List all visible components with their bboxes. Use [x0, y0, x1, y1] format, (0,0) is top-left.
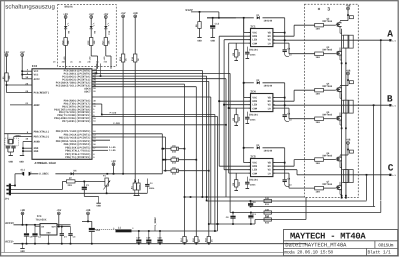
- wire HO gate A: [273, 35, 294, 37]
- junction sbec riser2: [217, 223, 219, 225]
- IC1 pin stubs: [249, 32, 251, 34]
- shunt resistor pair A: [344, 35, 348, 48]
- wire COM row IC5: [229, 172, 251, 174]
- junction C9: [232, 212, 234, 214]
- svg-text:100: 100: [316, 121, 321, 124]
- svg-text:VS: VS: [268, 169, 272, 172]
- wire LO gate C: [273, 172, 289, 174]
- wire XTAL1 to crystal: [7, 134, 9, 140]
- svg-text:LIN: LIN: [252, 169, 257, 172]
- wire HIN row IC5: [219, 165, 250, 167]
- wire Q7 source down: [339, 191, 341, 194]
- wire +5V VCC column: [21, 56, 23, 78]
- wire VCC row pin 6: [22, 74, 32, 76]
- svg-text:+5V: +5V: [56, 209, 61, 212]
- page frame inner left line: [3, 1, 5, 252]
- resistor R8 IC5: [235, 180, 238, 187]
- svg-text:10K: 10K: [93, 40, 96, 45]
- supply symbol +5V (VCC): [21, 54, 24, 57]
- wire drain to FET B: [340, 85, 348, 87]
- resistor R8 IC4: [235, 115, 238, 122]
- wire VCC row pin 18: [22, 78, 32, 80]
- wire +UB to rail: [22, 215, 24, 225]
- junction ACCU- gnd: [22, 243, 24, 245]
- svg-text:C20: C20: [158, 237, 163, 240]
- svg-text:0815Um: 0815Um: [378, 242, 393, 248]
- svg-text:+UB: +UB: [346, 69, 351, 72]
- svg-text:U12V: U12V: [186, 9, 193, 12]
- junction 12V rail C13: [212, 17, 214, 19]
- resistor R13: [264, 211, 272, 214]
- bus wire v 210.8: [210, 97, 212, 224]
- svg-text:10K: 10K: [67, 40, 70, 45]
- junction sbec riser: [217, 223, 219, 225]
- MCU top pin stubs: [95, 64, 97, 74]
- svg-text:LIN: LIN: [252, 104, 257, 107]
- diode D14 wire: [163, 170, 171, 172]
- svg-text:+5V: +5V: [63, 13, 68, 16]
- junction diode verticals: [161, 148, 163, 150]
- wire HO gate C: [273, 165, 294, 167]
- wire +5V to LED D8: [65, 18, 67, 25]
- svg-text:GND: GND: [46, 231, 51, 234]
- junction C16: [91, 243, 93, 245]
- load capacitor C6: [6, 145, 10, 147]
- bootstrap diode D3: [257, 146, 260, 149]
- gate resistor Q6: [315, 158, 324, 162]
- junction: [21, 70, 23, 72]
- svg-text:100n: 100n: [250, 119, 256, 122]
- svg-text:Datei:MAYTECH_MT40A: Datei:MAYTECH_MT40A: [285, 242, 347, 249]
- wire C11 bottom: [250, 218, 252, 224]
- wire R1 to reset row: [6, 81, 8, 92]
- wire C16 to rail: [91, 232, 93, 244]
- svg-text:10K: 10K: [238, 116, 241, 121]
- net label U_SBEC: [38, 171, 55, 176]
- svg-text:IC2: IC2: [32, 65, 38, 68]
- svg-text:R11: R11: [265, 203, 270, 206]
- svg-text:100n: 100n: [149, 187, 155, 190]
- title block row divider 1: [284, 240, 398, 242]
- capacitor C4: [145, 184, 149, 186]
- wire BEC to L1 (dotted): [95, 228, 116, 230]
- wire C13 stem: [212, 18, 214, 26]
- shunt resistor pair C: [344, 170, 348, 183]
- junction VB IC5: [284, 162, 286, 164]
- svg-text:COM: COM: [252, 42, 257, 45]
- wire COM row IC4: [229, 107, 251, 109]
- svg-text:IC4: IC4: [250, 90, 256, 93]
- junction drain B: [347, 79, 349, 81]
- junction P-LED: [101, 114, 103, 116]
- svg-text:VB: VB: [268, 162, 272, 165]
- wire VB drop IC4: [284, 83, 286, 115]
- svg-text:L1: L1: [118, 226, 122, 229]
- wires PB stubs with labels: [92, 146, 108, 148]
- gate driver IC5 IR2101 box: [251, 159, 273, 177]
- junction C3: [70, 243, 72, 245]
- wire bemf row R15: [255, 219, 306, 221]
- svg-text:R15: R15: [265, 222, 270, 225]
- bus wire v 202.4: [201, 70, 203, 197]
- svg-text:LO: LO: [268, 42, 272, 45]
- wire C15 IC5: [246, 177, 248, 183]
- svg-text:100: 100: [316, 191, 321, 194]
- svg-text:A: A: [387, 28, 393, 39]
- bus wire HIN chain: [218, 36, 220, 166]
- wire C1 stem: [83, 181, 85, 186]
- phase A sense drop: [380, 40, 382, 200]
- svg-text:R12: R12: [87, 40, 90, 45]
- resistor R1: [5, 73, 8, 81]
- junction row 124.8: [225, 124, 227, 126]
- shunt ties A: [342, 34, 349, 36]
- supply symbol +UB (BEC): [87, 212, 90, 215]
- wire VB drop IC1: [284, 18, 286, 50]
- wire R8 gnd IC1: [235, 57, 237, 61]
- wire diode rail IC5: [244, 147, 254, 149]
- wire C10 bottom: [250, 205, 252, 208]
- supply symbol +5V (R1 pullup): [5, 54, 8, 57]
- junction: [22, 224, 24, 226]
- svg-text:COM: COM: [252, 172, 257, 175]
- supply symbol +UB (battery): [21, 212, 24, 215]
- svg-text:IC5: IC5: [250, 155, 256, 158]
- wire VB pin IC5: [273, 162, 285, 164]
- wire +5V to R1: [6, 56, 8, 73]
- diode stack vertical 1: [161, 134, 163, 174]
- shunt ground rails to box bottom: [341, 63, 343, 197]
- svg-text:VB: VB: [268, 97, 272, 100]
- svg-text:R10: R10: [61, 40, 64, 45]
- svg-text:+UB: +UB: [20, 209, 25, 212]
- wire bemf row R15 left: [209, 223, 255, 225]
- svg-text:GND: GND: [96, 205, 101, 208]
- resistor R15: [264, 218, 272, 221]
- svg-text:1N4148: 1N4148: [264, 19, 273, 22]
- shunt return line: [185, 196, 305, 198]
- bus wire v 206.6: [206, 76, 208, 200]
- supply symbol +UB cell C: [347, 142, 350, 145]
- wire +UB to resistor R16: [134, 18, 136, 54]
- wire diode rail IC4: [244, 82, 254, 84]
- gate resistor Q2: [315, 23, 324, 27]
- svg-text:VCC: VCC: [252, 162, 257, 165]
- junction: [163, 159, 165, 161]
- diode D13 wire: [163, 159, 171, 161]
- gate resistor Q3: [315, 52, 324, 56]
- svg-text:16MHz: 16MHz: [15, 134, 22, 137]
- svg-text:OUT: OUT: [52, 225, 57, 228]
- svg-text:VS: VS: [268, 39, 272, 42]
- svg-text:10K: 10K: [265, 208, 270, 211]
- svg-text:moda 28.06.10 15:58: moda 28.06.10 15:58: [284, 250, 333, 256]
- wire pot to ground: [106, 186, 108, 193]
- trimmer P1: [105, 178, 108, 186]
- shunt ties B: [342, 99, 349, 101]
- wire Q7 drain: [339, 182, 341, 184]
- wire diode rail right IC1: [263, 17, 285, 19]
- junction: [163, 148, 165, 150]
- wire PD row 124.8: [92, 124, 226, 126]
- svg-text:HIN: HIN: [252, 100, 257, 103]
- ground bar R8 IC1: [234, 60, 238, 62]
- svg-text:PB7(XTAL2): PB7(XTAL2): [34, 136, 50, 139]
- svg-text:C17: C17: [136, 237, 141, 240]
- IC5 pin stubs: [249, 162, 251, 164]
- phase C sense drop: [366, 175, 368, 201]
- bemf bus C: [208, 81, 210, 236]
- wire C8 hook IC1: [285, 52, 289, 57]
- wire IC3 gnd: [48, 235, 50, 244]
- svg-text:PB6(XTAL1): PB6(XTAL1): [34, 131, 50, 134]
- svg-text:AGND: AGND: [34, 141, 41, 144]
- capacitor C15 IC4: [245, 116, 249, 118]
- wire AVCC row pin 20: [7, 84, 33, 86]
- svg-text:ADC7: ADC7: [84, 90, 91, 93]
- connector JP1: [9, 184, 11, 196]
- wire JP1 pin3: [11, 192, 147, 194]
- wire +5V to LED D9: [90, 18, 92, 25]
- wire R4/R5 tops: [134, 179, 136, 183]
- wire R8 feed IC1: [235, 43, 237, 50]
- resistor R17: [104, 38, 107, 46]
- svg-text:GND: GND: [34, 150, 39, 153]
- svg-text:BR10A: BR10A: [65, 5, 73, 8]
- svg-text:IRF7905: IRF7905: [322, 20, 333, 23]
- wires PB rows: [92, 133, 162, 135]
- phase rail A: [341, 29, 343, 64]
- svg-text:+5V: +5V: [20, 51, 25, 54]
- wire VCC drop IC4: [243, 83, 245, 98]
- wire R6 to ground: [199, 28, 201, 37]
- wires ADC bus rows: [92, 69, 202, 71]
- junction: [134, 181, 136, 183]
- ground bar (battery): [20, 248, 24, 250]
- wire C15 IC1: [246, 47, 248, 53]
- junction source B: [341, 127, 343, 129]
- wire bemf row C (R11): [207, 200, 272, 202]
- svg-text:COM: COM: [252, 107, 257, 110]
- svg-text:+5V: +5V: [4, 51, 9, 54]
- svg-text:100n: 100n: [250, 184, 256, 187]
- bemf bus A: [184, 84, 186, 236]
- svg-text:B: B: [387, 93, 393, 104]
- wire HIN row IC1: [219, 35, 250, 37]
- wire VB pin IC4: [273, 97, 285, 99]
- wire C11 stem: [250, 213, 252, 216]
- svg-text:+5V: +5V: [103, 13, 108, 16]
- resistor R16: [134, 54, 137, 62]
- bus wire LIN chain: [223, 40, 225, 170]
- svg-text:U_SBEC: U_SBEC: [154, 217, 157, 227]
- junction VS A: [284, 39, 286, 41]
- supply symbol +5V column 2: [90, 16, 93, 19]
- wire crystal caps to ground: [7, 148, 9, 152]
- svg-text:R17: R17: [102, 40, 105, 45]
- svg-text:VB: VB: [268, 32, 272, 35]
- resistor R16: [195, 237, 198, 243]
- wire diode rail right IC5: [263, 147, 285, 149]
- svg-text:100n: 100n: [250, 54, 256, 57]
- dashed box BR10A (LED/pullup option): [58, 5, 117, 67]
- junction: [21, 74, 23, 76]
- junction C10: [250, 200, 252, 202]
- junction IC3 gnd: [48, 243, 50, 245]
- wire XTAL2 row: [14, 136, 32, 138]
- IC4 pin stubs: [249, 97, 251, 99]
- svg-text:Y-LED: Y-LED: [109, 149, 116, 152]
- drain snubber A: [349, 16, 353, 19]
- resistor R11: [264, 199, 272, 202]
- svg-text:ATMEGA8-16AU: ATMEGA8-16AU: [35, 161, 56, 165]
- ground bar R8 IC4: [234, 125, 238, 127]
- transistor Q2 (IRF7905 high side): [339, 21, 341, 23]
- svg-text:GND: GND: [210, 40, 215, 43]
- junction GND pins: [22, 147, 24, 149]
- wire LO gate B: [273, 107, 289, 109]
- wire JP1 pin2: [11, 188, 63, 190]
- wire C13 to ground: [212, 28, 214, 37]
- bootstrap diode D2: [257, 81, 260, 84]
- load capacitor C7: [11, 145, 15, 147]
- 12V distribution spine: [243, 18, 245, 148]
- transistor Q6 (IRF7905 high side): [339, 156, 341, 158]
- wire 12V rail: [207, 17, 236, 19]
- junction servo line: [106, 173, 108, 175]
- svg-text:LIN: LIN: [252, 39, 257, 42]
- wire drain to FET C: [340, 154, 348, 156]
- junction VS B: [284, 104, 286, 106]
- svg-text:VCC: VCC: [34, 74, 39, 77]
- connector SL1 pins: [22, 172, 24, 176]
- svg-text:VCC: VCC: [252, 32, 257, 35]
- diode D10: [171, 147, 179, 150]
- wire +UB drain C: [347, 144, 349, 155]
- wire U12V drop: [218, 12, 220, 18]
- resistor R6: [198, 22, 201, 29]
- bootstrap diode D1: [257, 16, 260, 19]
- wire IC3 in: [35, 226, 40, 228]
- resistor R18: [207, 237, 210, 243]
- wire AREF pin 21: [10, 104, 32, 106]
- svg-text:IR2101: IR2101: [249, 49, 259, 52]
- ground bar C15 IC4: [246, 123, 250, 125]
- wire bemf row R15 step: [254, 220, 256, 225]
- wire R8 feed IC4: [235, 108, 237, 115]
- svg-text:+5V: +5V: [111, 160, 116, 163]
- svg-text:D13: D13: [172, 162, 177, 165]
- svg-text:P-LED: P-LED: [110, 112, 117, 115]
- wire L1 out: [132, 230, 218, 232]
- supply symbol +5V (servo): [112, 163, 115, 166]
- svg-text:schaltungsauszug: schaltungsauszug: [5, 3, 55, 10]
- svg-text:IC1: IC1: [250, 25, 256, 28]
- junction VB IC4: [284, 97, 286, 99]
- ground bar under C13: [211, 37, 215, 39]
- junction C2: [34, 224, 36, 226]
- wire XTAL2 to crystal: [13, 137, 15, 140]
- phase B sense drop: [373, 105, 375, 206]
- bus wire v 230.1: [229, 73, 231, 212]
- supply symbol +5V pullup R15: [122, 15, 125, 18]
- wire C4: [146, 179, 148, 185]
- wire +UB BEC drop: [87, 215, 89, 222]
- gate driver IC1 IR2101 box: [251, 29, 273, 47]
- diode D14: [171, 169, 179, 172]
- wire LED to resistor: [105, 29, 107, 38]
- capacitor C3: [70, 227, 72, 234]
- svg-text:+UB: +UB: [346, 4, 351, 7]
- svg-text:1N4148: 1N4148: [264, 149, 273, 152]
- wire LO gate A: [273, 42, 289, 44]
- resistor R7: [66, 180, 75, 183]
- inductor L1: [116, 229, 132, 232]
- svg-text:100: 100: [316, 93, 321, 96]
- svg-text:D10: D10: [172, 151, 177, 154]
- svg-text:10K: 10K: [107, 40, 110, 45]
- wire U12V horizontal: [191, 11, 219, 13]
- ground bar (crystal): [9, 155, 13, 157]
- junction shunt return: [190, 196, 192, 198]
- wire R8 feed IC5: [235, 173, 237, 180]
- svg-text:10K: 10K: [8, 75, 11, 80]
- wire MCU ground pins: [23, 141, 32, 143]
- svg-text:C13: C13: [215, 22, 220, 25]
- capacitor C8 IC4: [283, 114, 287, 116]
- wire SL1 pin1 down: [15, 173, 23, 175]
- wire Q3 drain: [339, 48, 341, 50]
- drain snubber B: [349, 81, 353, 84]
- junction C4b: [61, 226, 63, 228]
- dashed repetition box x3: [305, 4, 359, 197]
- wire C9 bottom: [232, 218, 234, 224]
- ground bar C15 IC5: [246, 188, 250, 190]
- wire LED to resistor: [90, 29, 92, 38]
- wire bemf row A (R13): [230, 212, 271, 214]
- capacitor C8 IC1: [283, 49, 287, 51]
- wire Q6 source rail: [339, 162, 341, 167]
- svg-text:IRF7905: IRF7905: [322, 49, 333, 52]
- svg-text:IR2101: IR2101: [249, 114, 259, 117]
- transistor Q4 (IRF7905 high side): [339, 86, 341, 88]
- svg-text:HO: HO: [268, 100, 272, 103]
- wire PD row 97: [92, 96, 211, 98]
- svg-text:220: 220: [68, 184, 73, 187]
- wire VS output row A: [273, 39, 389, 41]
- svg-text:1N4148: 1N4148: [264, 84, 273, 87]
- wire LIN row IC1: [224, 39, 250, 41]
- wire servo signal: [30, 173, 162, 175]
- supply symbol +UB pullup R16: [134, 15, 137, 18]
- svg-text:+UB: +UB: [346, 139, 351, 142]
- svg-text:U_SBEC: U_SBEC: [39, 173, 49, 176]
- svg-text:PD5(T1)(PCINT21): PD5(T1)(PCINT21): [65, 156, 91, 159]
- terminal pad C: [389, 174, 391, 176]
- capacitor C2 (electrolytic): [34, 225, 36, 234]
- wire LED to resistor: [65, 29, 67, 38]
- capacitor C16 (electrolytic): [89, 228, 95, 230]
- resistor R15: [121, 54, 124, 62]
- svg-text:GND: GND: [8, 160, 13, 163]
- svg-text:+5V: +5V: [89, 13, 94, 16]
- junction VB IC1: [284, 32, 286, 34]
- wire P-LED row: [102, 114, 215, 116]
- svg-text:C: C: [388, 163, 394, 174]
- resistor R4: [133, 183, 136, 190]
- wire R7 to pot: [75, 180, 105, 182]
- transistor Q3 (IRF7905 low side): [339, 50, 341, 52]
